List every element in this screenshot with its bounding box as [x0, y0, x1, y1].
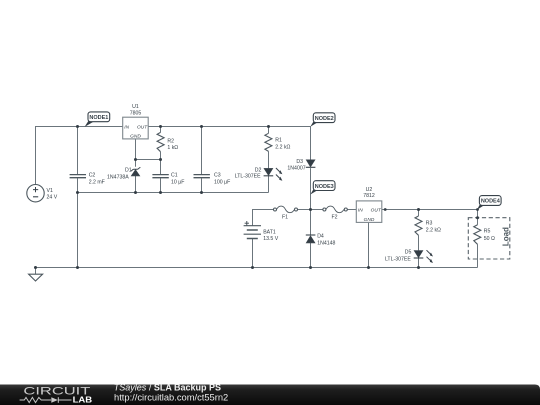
node NODE2 label	[310, 113, 335, 127]
svg-text:2.2 kΩ: 2.2 kΩ	[275, 145, 290, 151]
svg-text:IN: IN	[358, 207, 363, 213]
wire battery to F1	[253, 210, 274, 226]
wire C3 branch	[201, 127, 203, 193]
wire D3 to fuse row	[310, 168, 312, 209]
LED D2	[235, 167, 283, 180]
svg-text:Load: Load	[501, 227, 510, 246]
svg-text:1N4007: 1N4007	[287, 166, 305, 172]
svg-text:2.2 kΩ: 2.2 kΩ	[426, 228, 441, 234]
svg-text:F1: F1	[282, 215, 288, 221]
capacitor C1	[152, 173, 184, 186]
svg-text:LTL-307EE: LTL-307EE	[235, 174, 261, 180]
svg-text:D1: D1	[125, 168, 132, 174]
node NODE4 label	[477, 196, 501, 210]
wire V1 top to U1 IN	[36, 127, 123, 185]
node junction mid rail x C1	[159, 191, 162, 194]
svg-text:7812: 7812	[363, 193, 375, 199]
fuse F1	[274, 206, 298, 221]
node junction top wire x C3	[200, 125, 203, 128]
logo wire resistor diode glyph	[20, 397, 72, 403]
svg-text:D2: D2	[255, 167, 262, 173]
svg-text:F2: F2	[331, 215, 337, 221]
op-amp regulator U1 7805	[123, 104, 149, 140]
svg-text:D5: D5	[405, 249, 412, 255]
capacitor C2	[70, 173, 105, 186]
wire U1 GND stem	[135, 139, 137, 160]
svg-text:GND: GND	[364, 217, 375, 223]
wire R1 stubs	[268, 127, 270, 169]
wire link U1gnd to C1 top	[136, 159, 161, 161]
node junction ground rail x C2	[76, 266, 79, 269]
battery BAT1	[244, 221, 279, 242]
svg-text:D3: D3	[296, 159, 303, 165]
wire U2 OUT to load corner	[382, 210, 478, 225]
svg-text:R3: R3	[426, 221, 433, 227]
wire D4 stubs	[310, 210, 312, 268]
node NODE1 label	[85, 112, 110, 127]
wire C2 branch vertical	[77, 127, 79, 268]
svg-text:U1: U1	[132, 104, 139, 110]
svg-text:TSayles / SLA Backup PS: TSayles / SLA Backup PS	[114, 382, 221, 392]
node junction mid rail x D1	[134, 191, 137, 194]
svg-text:C2: C2	[89, 173, 96, 179]
wire bottom ground rail	[36, 267, 478, 269]
svg-text:IN: IN	[124, 124, 129, 130]
wire R2 stubs	[160, 127, 162, 160]
svg-text:OUT: OUT	[137, 124, 148, 130]
wire U2 GND stem	[368, 222, 370, 267]
node junction top wire x R1	[267, 125, 270, 128]
svg-text:R5: R5	[484, 229, 491, 235]
svg-text:V1: V1	[47, 188, 53, 194]
svg-text:R1: R1	[275, 137, 282, 143]
svg-text:50 Ω: 50 Ω	[484, 236, 495, 242]
resistor R2	[157, 132, 178, 151]
wire battery bottom	[252, 239, 254, 268]
svg-text:24 V: 24 V	[47, 195, 58, 201]
capacitor C3	[194, 173, 231, 186]
wire F2 to U2 IN	[347, 209, 356, 211]
svg-text:LAB: LAB	[73, 395, 93, 405]
LED D5	[385, 249, 433, 263]
diode D3	[287, 159, 315, 171]
resistor R3	[415, 216, 441, 235]
svg-text:http://circuitlab.com/ct55rn2: http://circuitlab.com/ct55rn2	[114, 392, 228, 402]
node junction ground rail x D5	[417, 266, 420, 269]
svg-text:C3: C3	[214, 173, 221, 179]
svg-text:1N4148: 1N4148	[317, 241, 335, 247]
svg-text:D4: D4	[317, 234, 324, 240]
load box	[468, 218, 510, 259]
wire U1 OUT to NODE2 corner	[148, 126, 310, 128]
node junction top wire x C2	[76, 125, 79, 128]
node junction mid rail x C3	[200, 191, 203, 194]
node junction ground rail x BAT1	[251, 266, 254, 269]
svg-text:7805: 7805	[130, 110, 142, 116]
ground	[29, 268, 43, 282]
regulator U2 7812	[356, 187, 382, 223]
svg-text:GND: GND	[130, 134, 141, 140]
wire F1 to D3 junction	[297, 209, 323, 211]
svg-text:13.5 V: 13.5 V	[263, 236, 279, 242]
wire R5 bottom to rail	[477, 244, 479, 267]
node junction ground rail x D4	[309, 266, 312, 269]
node junction top wire x R2	[159, 125, 162, 128]
node junction mid rail x C2	[76, 191, 79, 194]
svg-text:2.2 mF: 2.2 mF	[89, 179, 105, 185]
svg-text:OUT: OUT	[371, 207, 382, 213]
node junction load box entry	[476, 216, 479, 219]
svg-text:BAT1: BAT1	[263, 230, 276, 236]
node junction out wire x R3	[417, 208, 420, 211]
wire D1 stubs	[135, 160, 137, 193]
resistor R1	[265, 133, 291, 151]
resistor R5	[474, 225, 495, 245]
node NODE3 label	[310, 181, 335, 195]
svg-text:R2: R2	[167, 139, 174, 145]
wire R3 stubs	[418, 210, 420, 251]
svg-text:NODE4: NODE4	[481, 199, 501, 205]
fuse F2	[323, 206, 347, 221]
svg-text:NODE1: NODE1	[89, 115, 108, 121]
wire C1 stubs	[160, 160, 162, 193]
svg-text:100 µF: 100 µF	[214, 179, 230, 185]
node junction NODE4 corner	[476, 208, 479, 211]
node junction fuse row x D3	[309, 208, 312, 211]
svg-text:1N4738A: 1N4738A	[107, 174, 129, 180]
node junction U1 GND link left	[134, 158, 137, 161]
svg-text:NODE3: NODE3	[315, 184, 334, 190]
wire D5 bottom stub	[418, 258, 420, 268]
diode D4	[306, 234, 336, 247]
wire NODE2 corner down to D3	[310, 127, 312, 160]
wire D2 bottom stub	[268, 176, 270, 193]
node junction link x C1	[159, 158, 162, 161]
node junction ground rail x V1	[34, 266, 37, 269]
voltage source V1	[27, 185, 58, 202]
svg-text:C1: C1	[171, 173, 178, 179]
zener diode D1	[107, 168, 140, 181]
node junction ground rail x U2 GND	[367, 266, 370, 269]
node junction U2 OUT pin	[384, 208, 387, 211]
svg-text:1 kΩ: 1 kΩ	[167, 145, 178, 151]
svg-text:LTL-307EE: LTL-307EE	[385, 256, 411, 262]
svg-text:NODE2: NODE2	[315, 116, 334, 122]
wire middle ground rail	[78, 192, 269, 194]
svg-text:10 µF: 10 µF	[171, 179, 184, 185]
footer bar	[0, 385, 540, 405]
svg-text:U2: U2	[366, 187, 373, 193]
